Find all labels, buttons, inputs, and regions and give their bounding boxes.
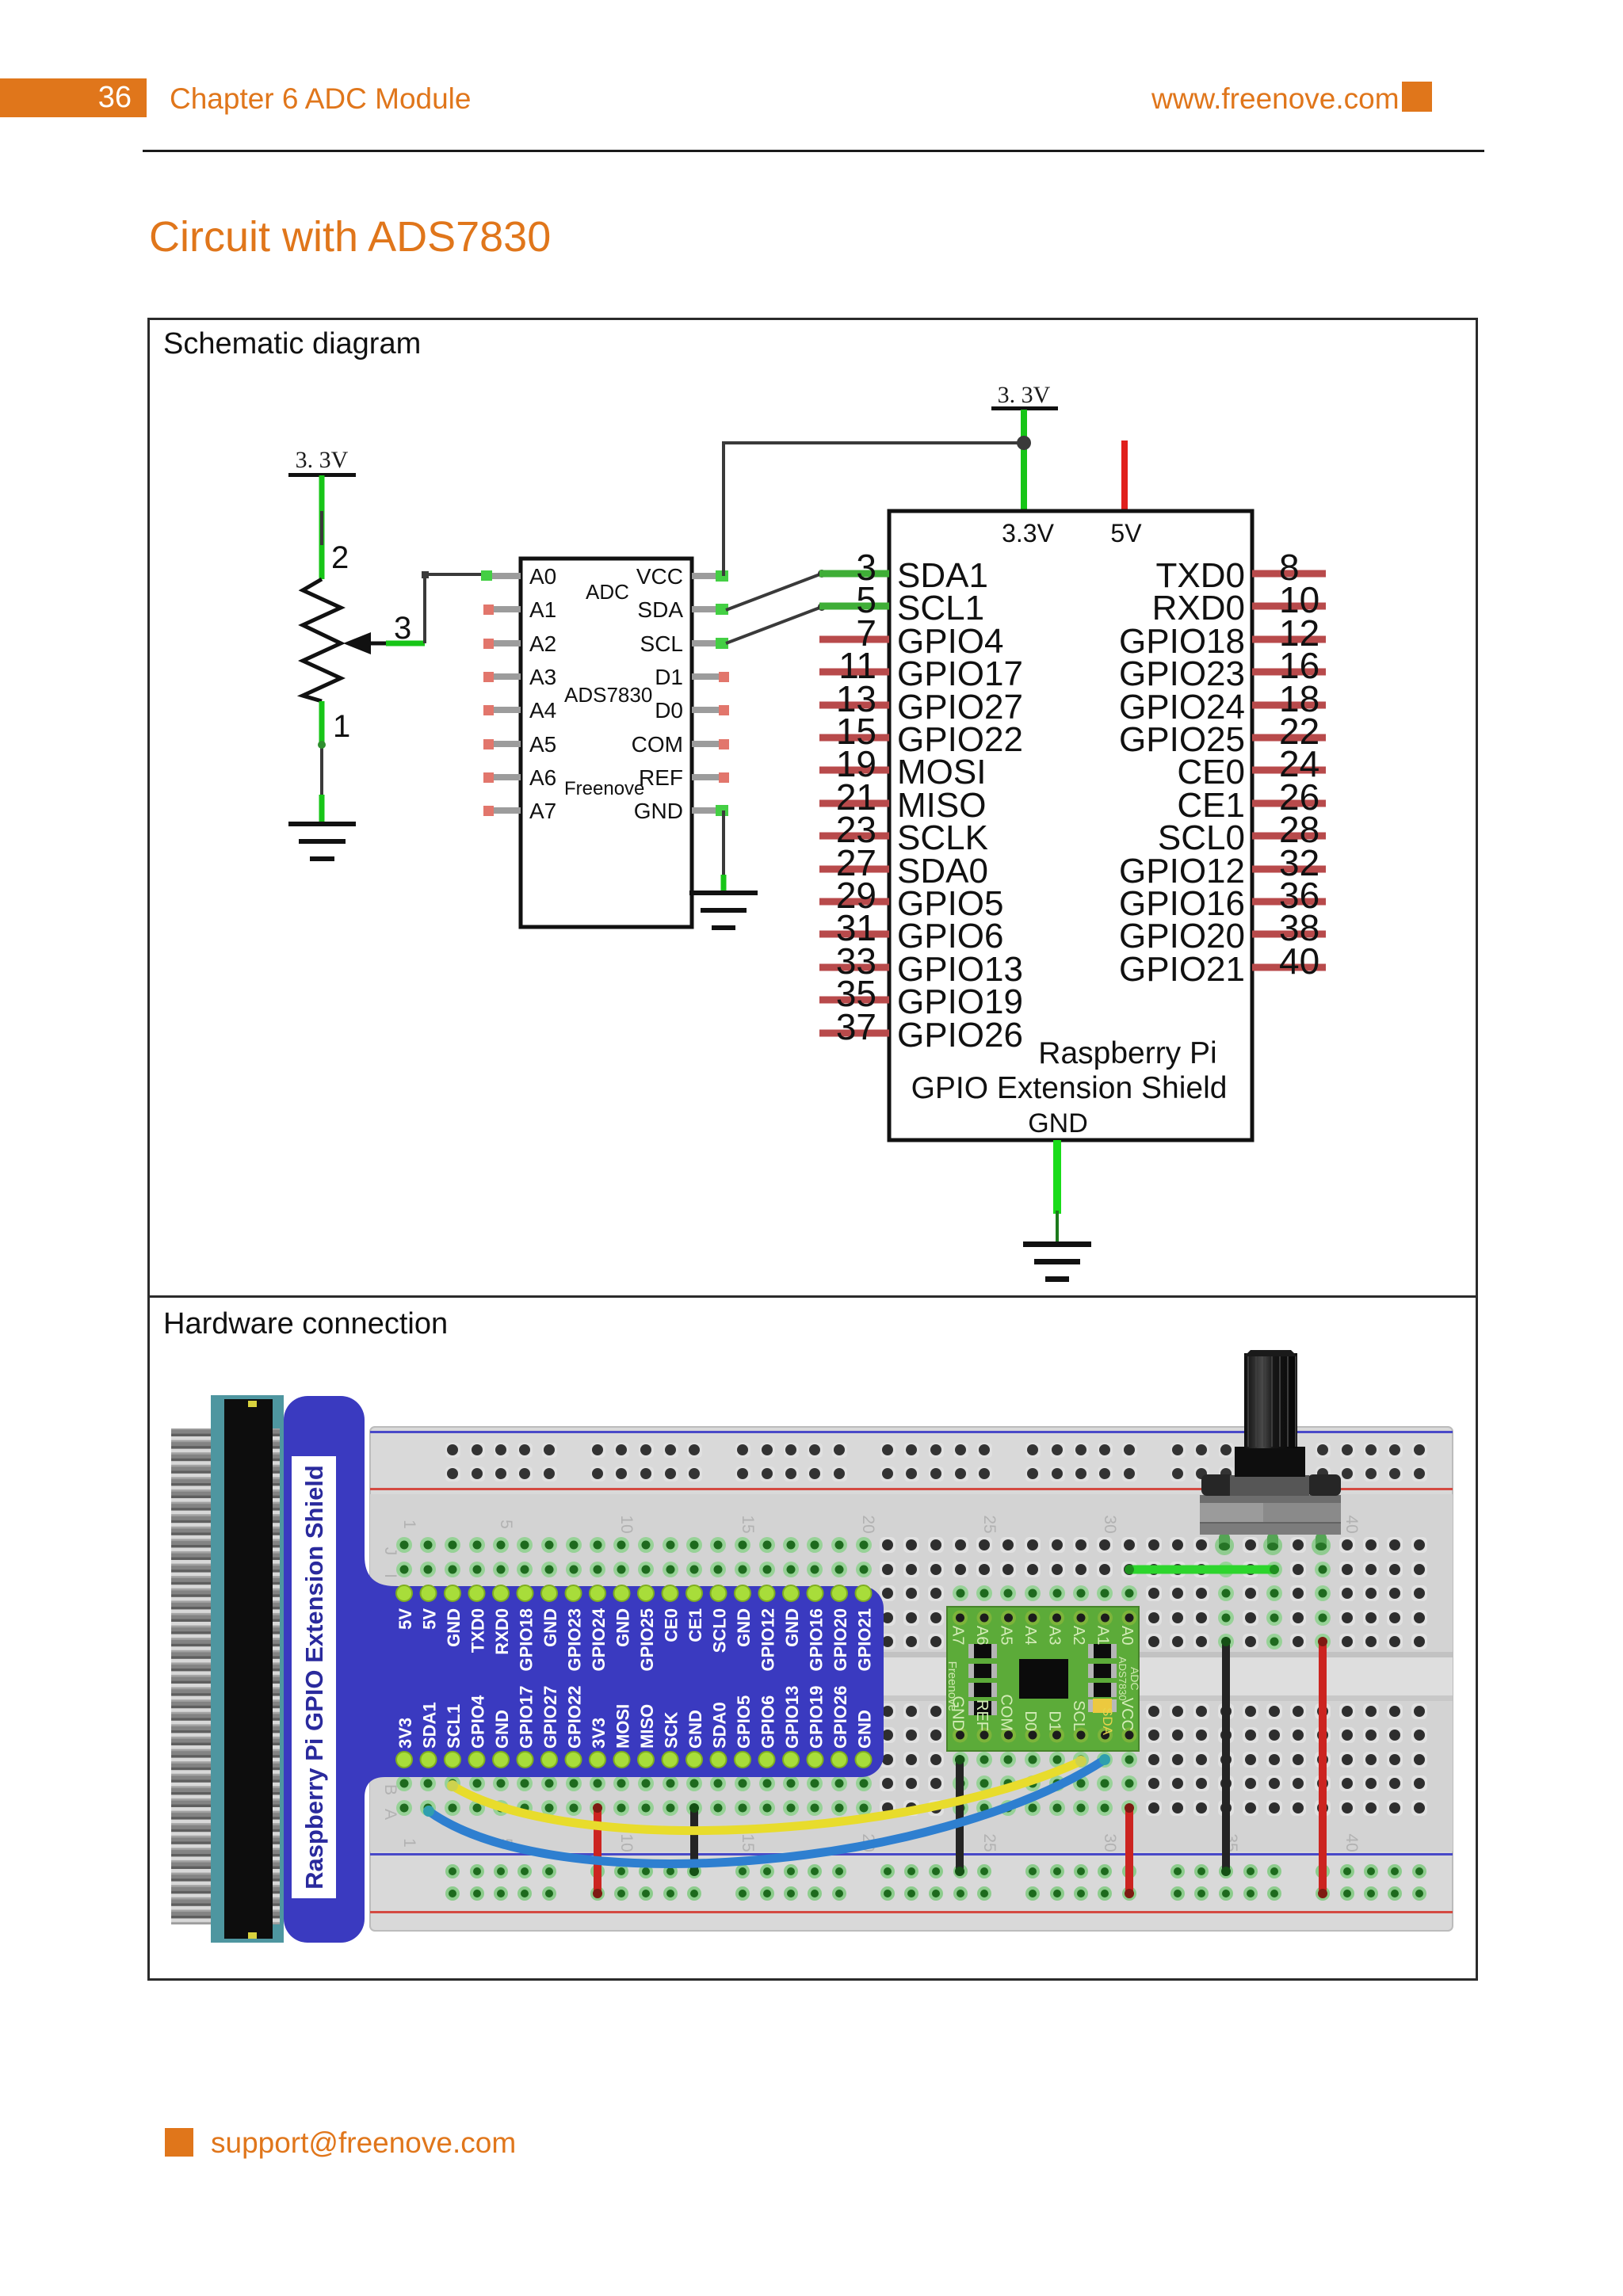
- svg-text:RXD0: RXD0: [492, 1608, 512, 1655]
- svg-text:A0: A0: [529, 564, 556, 589]
- pin A6 of U1: [483, 765, 556, 790]
- svg-text:15: 15: [739, 1833, 757, 1852]
- svg-text:40: 40: [1342, 1833, 1361, 1852]
- shield white label strip: [292, 1456, 336, 1898]
- svg-text:A3: A3: [1046, 1626, 1064, 1645]
- pin SCL of U1: [640, 631, 728, 656]
- pin D1 of U1: [655, 665, 729, 689]
- svg-text:A3: A3: [529, 665, 556, 689]
- svg-text:GND: GND: [855, 1710, 875, 1749]
- pin COM of U1: [632, 732, 729, 757]
- svg-text:GND: GND: [492, 1710, 512, 1749]
- svg-text:1: 1: [400, 1520, 418, 1529]
- svg-text:A1: A1: [529, 597, 556, 622]
- pin 15 (GPIO22) of shield: [819, 711, 1023, 759]
- svg-text:GPIO6: GPIO6: [758, 1695, 778, 1749]
- pin 3 (SDA1) of shield: [819, 547, 988, 595]
- svg-text:SDA0: SDA0: [710, 1702, 730, 1749]
- wire pot pin2 to 3.3V: [319, 475, 325, 579]
- svg-text:3. 3V: 3. 3V: [998, 382, 1051, 408]
- wire blue SDA1 to module SDA: [423, 1754, 1110, 1863]
- op-amp/ADC chip U1 ADS7830: [521, 559, 692, 927]
- pin A5 of U1: [483, 732, 556, 757]
- pin SDA of U1: [637, 597, 728, 622]
- wire black col24 module GND to -rail: [955, 1755, 964, 1876]
- svg-text:GPIO25: GPIO25: [637, 1608, 657, 1671]
- svg-text:5: 5: [497, 1520, 515, 1529]
- svg-text:SCL: SCL: [640, 631, 683, 656]
- svg-text:GPIO18: GPIO18: [517, 1608, 537, 1671]
- svg-text:GPIO16: GPIO16: [807, 1608, 827, 1671]
- page title: [149, 212, 551, 261]
- svg-text:VCC: VCC: [1118, 1698, 1136, 1731]
- svg-text:I: I: [381, 1573, 399, 1578]
- header chapter title: [170, 78, 471, 117]
- svg-text:J: J: [381, 1547, 399, 1556]
- svg-text:GPIO27: GPIO27: [540, 1686, 560, 1749]
- breadboard bottom power rails: [445, 1864, 1426, 1901]
- pin 26 (CE1) of shield: [1177, 776, 1326, 825]
- svg-text:A: A: [381, 1809, 399, 1820]
- svg-text:10: 10: [617, 1515, 636, 1533]
- svg-text:SCL1: SCL1: [444, 1704, 464, 1749]
- pin A1 of U1: [483, 597, 556, 622]
- pin 13 (GPIO27) of shield: [819, 678, 1023, 727]
- svg-text:REF: REF: [973, 1699, 991, 1731]
- svg-text:GPIO26: GPIO26: [897, 1016, 1023, 1055]
- wire VCC to 3.3V rail: [724, 443, 1022, 576]
- svg-text:GPIO12: GPIO12: [758, 1608, 778, 1671]
- pin 10 (RXD0) of shield: [1152, 579, 1326, 627]
- svg-text:ADC: ADC: [586, 580, 629, 604]
- svg-text:GPIO5: GPIO5: [734, 1695, 754, 1749]
- svg-text:A7: A7: [949, 1626, 967, 1645]
- svg-text:SCL: SCL: [1070, 1700, 1087, 1731]
- power 3.3V (shield): [991, 382, 1058, 410]
- pot wiper arrow: [343, 632, 390, 654]
- svg-text:3. 3V: 3. 3V: [296, 447, 349, 473]
- svg-text:D1: D1: [655, 665, 683, 689]
- svg-text:A6: A6: [973, 1626, 991, 1645]
- breadboard: [370, 1427, 1453, 1931]
- svg-text:A5: A5: [998, 1626, 1015, 1645]
- wire SDA to SDA1: [726, 570, 826, 610]
- pin 38 (GPIO20) of shield: [1119, 907, 1326, 955]
- svg-text:3.3V: 3.3V: [1002, 519, 1054, 547]
- svg-text:40: 40: [1279, 940, 1319, 982]
- svg-text:ADC: ADC: [1128, 1667, 1141, 1691]
- IDC connector: [211, 1395, 284, 1943]
- svg-text:A2: A2: [1070, 1626, 1087, 1645]
- pin 37 (GPIO26) of shield: [819, 1006, 1023, 1055]
- Raspberry Pi GPIO Extension Shield box: [889, 511, 1252, 1140]
- pin A3 of U1: [483, 665, 556, 689]
- svg-text:3: 3: [394, 611, 411, 646]
- svg-text:GPIO21: GPIO21: [1119, 950, 1245, 989]
- svg-text:Freenove: Freenove: [564, 778, 644, 799]
- svg-text:D0: D0: [655, 698, 683, 723]
- wire wiper green segment: [386, 641, 425, 646]
- svg-text:MISO: MISO: [637, 1704, 657, 1749]
- pin D0 of U1: [655, 698, 729, 723]
- wire shield GND to ground: [1053, 1140, 1061, 1244]
- pin A7 of U1: [483, 799, 556, 823]
- svg-text:A6: A6: [529, 765, 556, 790]
- svg-text:20: 20: [859, 1515, 877, 1533]
- svg-text:5V: 5V: [1110, 519, 1142, 547]
- pin 36 (GPIO16) of shield: [1119, 875, 1326, 923]
- svg-text:REF: REF: [639, 765, 683, 790]
- svg-text:GND: GND: [734, 1608, 754, 1647]
- wire red col31 module VCC to +rail: [1125, 1803, 1134, 1898]
- svg-text:1: 1: [400, 1838, 418, 1848]
- svg-text:5V: 5V: [420, 1608, 440, 1630]
- pin REF of U1: [639, 765, 729, 790]
- svg-text:GND: GND: [540, 1608, 560, 1647]
- svg-text:A0: A0: [1118, 1626, 1136, 1645]
- svg-text:GND: GND: [444, 1608, 464, 1647]
- ADS7830 ADC module (green board): [947, 1607, 1139, 1751]
- pin VCC of U1: [636, 564, 728, 589]
- svg-text:GPIO Extension Shield: GPIO Extension Shield: [911, 1071, 1228, 1105]
- pin GND of U1: [634, 799, 728, 823]
- breadboard main grid holes: [396, 1537, 1427, 1816]
- svg-text:GPIO24: GPIO24: [589, 1608, 609, 1671]
- svg-text:SCK: SCK: [662, 1711, 682, 1749]
- wire red col9 3V3 to +rail: [593, 1803, 602, 1898]
- svg-text:A4: A4: [529, 698, 556, 723]
- svg-text:A5: A5: [529, 732, 556, 757]
- wire black col35 pot GND to rail: [1221, 1637, 1231, 1876]
- svg-text:CE1: CE1: [685, 1608, 705, 1642]
- wire black col13 GND to -rail: [689, 1803, 699, 1876]
- svg-text:MOSI: MOSI: [613, 1704, 633, 1749]
- pin A2 of U1: [483, 631, 556, 656]
- power 3.3V (potentiometer): [288, 447, 356, 477]
- footer: [165, 2128, 193, 2157]
- pin 32 (GPIO12) of shield: [1119, 842, 1326, 891]
- wire SCL to SCL1: [726, 603, 826, 643]
- svg-text:GPIO17: GPIO17: [517, 1686, 537, 1749]
- svg-text:A4: A4: [1022, 1626, 1039, 1645]
- pin 11 (GPIO17) of shield: [819, 645, 1023, 693]
- svg-text:GPIO23: GPIO23: [565, 1608, 585, 1671]
- breadboard top power rails: [445, 1443, 1427, 1482]
- svg-text:15: 15: [739, 1515, 757, 1533]
- header website: [1151, 78, 1389, 117]
- svg-text:ADS7830: ADS7830: [1117, 1657, 1128, 1701]
- svg-text:D1: D1: [1046, 1711, 1064, 1731]
- svg-text:Raspberry Pi GPIO Extension Sh: Raspberry Pi GPIO Extension Shield: [300, 1465, 328, 1890]
- wire green row I col31-col37: [1125, 1565, 1279, 1574]
- shield pin headers and labels: [395, 1585, 875, 1768]
- outer panel box: [147, 318, 1478, 1981]
- pin 40 (GPIO21) of shield: [1119, 940, 1326, 989]
- pin 29 (GPIO5) of shield: [819, 875, 1004, 923]
- ground (U1): [689, 891, 758, 930]
- potentiometer R1: [303, 540, 411, 744]
- svg-text:25: 25: [980, 1515, 999, 1533]
- node junction 3.3V: [1017, 436, 1031, 450]
- pin 24 (CE0) of shield: [1177, 743, 1326, 791]
- svg-text:GPIO22: GPIO22: [565, 1686, 585, 1749]
- svg-text:GPIO19: GPIO19: [807, 1686, 827, 1749]
- svg-text:COM: COM: [632, 732, 683, 757]
- svg-text:CE0: CE0: [662, 1608, 682, 1642]
- svg-text:SDA: SDA: [637, 597, 683, 622]
- pin 16 (GPIO23) of shield: [1119, 645, 1326, 693]
- svg-text:GPIO4: GPIO4: [468, 1695, 488, 1749]
- svg-text:3V3: 3V3: [395, 1718, 415, 1749]
- ground (potentiometer): [288, 822, 356, 861]
- svg-text:GND: GND: [685, 1710, 705, 1749]
- wire red col39 pot to +rail: [1318, 1637, 1327, 1898]
- svg-text:GPIO13: GPIO13: [782, 1686, 802, 1749]
- pin 8 (TXD0) of shield: [1156, 547, 1326, 595]
- wire 3.3V to shield: [1021, 410, 1027, 511]
- Raspberry Pi GPIO extension shield (blue board): [284, 1396, 884, 1943]
- pin 31 (GPIO6) of shield: [819, 907, 1004, 955]
- svg-text:30: 30: [1101, 1515, 1119, 1533]
- pin 23 (SCLK) of shield: [819, 809, 988, 857]
- svg-text:B: B: [381, 1784, 399, 1795]
- svg-text:10: 10: [617, 1833, 636, 1852]
- svg-text:1: 1: [333, 709, 350, 744]
- svg-text:GPIO20: GPIO20: [831, 1608, 850, 1671]
- svg-text:TXD0: TXD0: [468, 1608, 488, 1653]
- svg-text:37: 37: [836, 1006, 876, 1047]
- svg-text:GPIO26: GPIO26: [831, 1686, 850, 1749]
- svg-text:GND: GND: [782, 1608, 802, 1647]
- pin 12 (GPIO18) of shield: [1119, 612, 1326, 661]
- pin 19 (MOSI) of shield: [819, 743, 986, 791]
- svg-text:30: 30: [1101, 1833, 1119, 1852]
- wire GND of U1 to ground: [722, 810, 725, 892]
- svg-text:GND: GND: [634, 799, 683, 823]
- svg-text:Raspberry Pi: Raspberry Pi: [1038, 1036, 1216, 1070]
- svg-text:GND: GND: [613, 1608, 633, 1647]
- pin 21 (MISO) of shield: [819, 776, 986, 825]
- svg-text:SDA1: SDA1: [420, 1702, 440, 1749]
- svg-text:40: 40: [1342, 1515, 1361, 1533]
- pin A4 of U1: [483, 698, 556, 723]
- svg-text:A2: A2: [529, 631, 556, 656]
- svg-text:A7: A7: [529, 799, 556, 823]
- svg-text:5V: 5V: [395, 1608, 415, 1630]
- header page-number block: [0, 78, 147, 117]
- pin 33 (GPIO13) of shield: [819, 940, 1023, 989]
- pin 7 (GPIO4) of shield: [819, 612, 1004, 661]
- pin 35 (GPIO19) of shield: [819, 973, 1023, 1021]
- wire wiper to A0: [422, 571, 485, 643]
- svg-text:SCL0: SCL0: [710, 1608, 730, 1653]
- svg-text:25: 25: [980, 1833, 999, 1852]
- svg-text:2: 2: [331, 540, 349, 575]
- pin 18 (GPIO24) of shield: [1119, 678, 1326, 727]
- pin 5 (SCL1) of shield: [819, 579, 984, 627]
- ground (shield): [1023, 1241, 1091, 1282]
- svg-text:GPIO21: GPIO21: [855, 1608, 875, 1671]
- svg-text:GND: GND: [1028, 1108, 1088, 1138]
- svg-text:SDA: SDA: [1100, 1707, 1115, 1736]
- pin 22 (GPIO25) of shield: [1119, 711, 1326, 759]
- pin A0 of U1: [481, 564, 556, 589]
- svg-text:A1: A1: [1094, 1626, 1112, 1645]
- svg-text:COM: COM: [998, 1694, 1015, 1731]
- breadboard labels: [400, 1515, 1361, 1852]
- svg-text:Freenove: Freenove: [945, 1661, 959, 1711]
- module pins and labels: [949, 1611, 1137, 1743]
- potentiometer (hardware): [1200, 1350, 1341, 1555]
- wire pot pin1 to ground: [318, 701, 326, 823]
- wire 5V stub: [1121, 441, 1128, 511]
- wire yellow SCL1 to module SCL: [447, 1756, 1086, 1831]
- header rule: [143, 150, 1484, 152]
- svg-text:3V3: 3V3: [589, 1718, 609, 1749]
- pin 27 (SDA0) of shield: [819, 842, 988, 891]
- svg-text:ADS7830: ADS7830: [564, 683, 652, 707]
- svg-text:D0: D0: [1022, 1711, 1039, 1731]
- pin 28 (SCL0) of shield: [1158, 809, 1326, 857]
- svg-text:VCC: VCC: [636, 564, 683, 589]
